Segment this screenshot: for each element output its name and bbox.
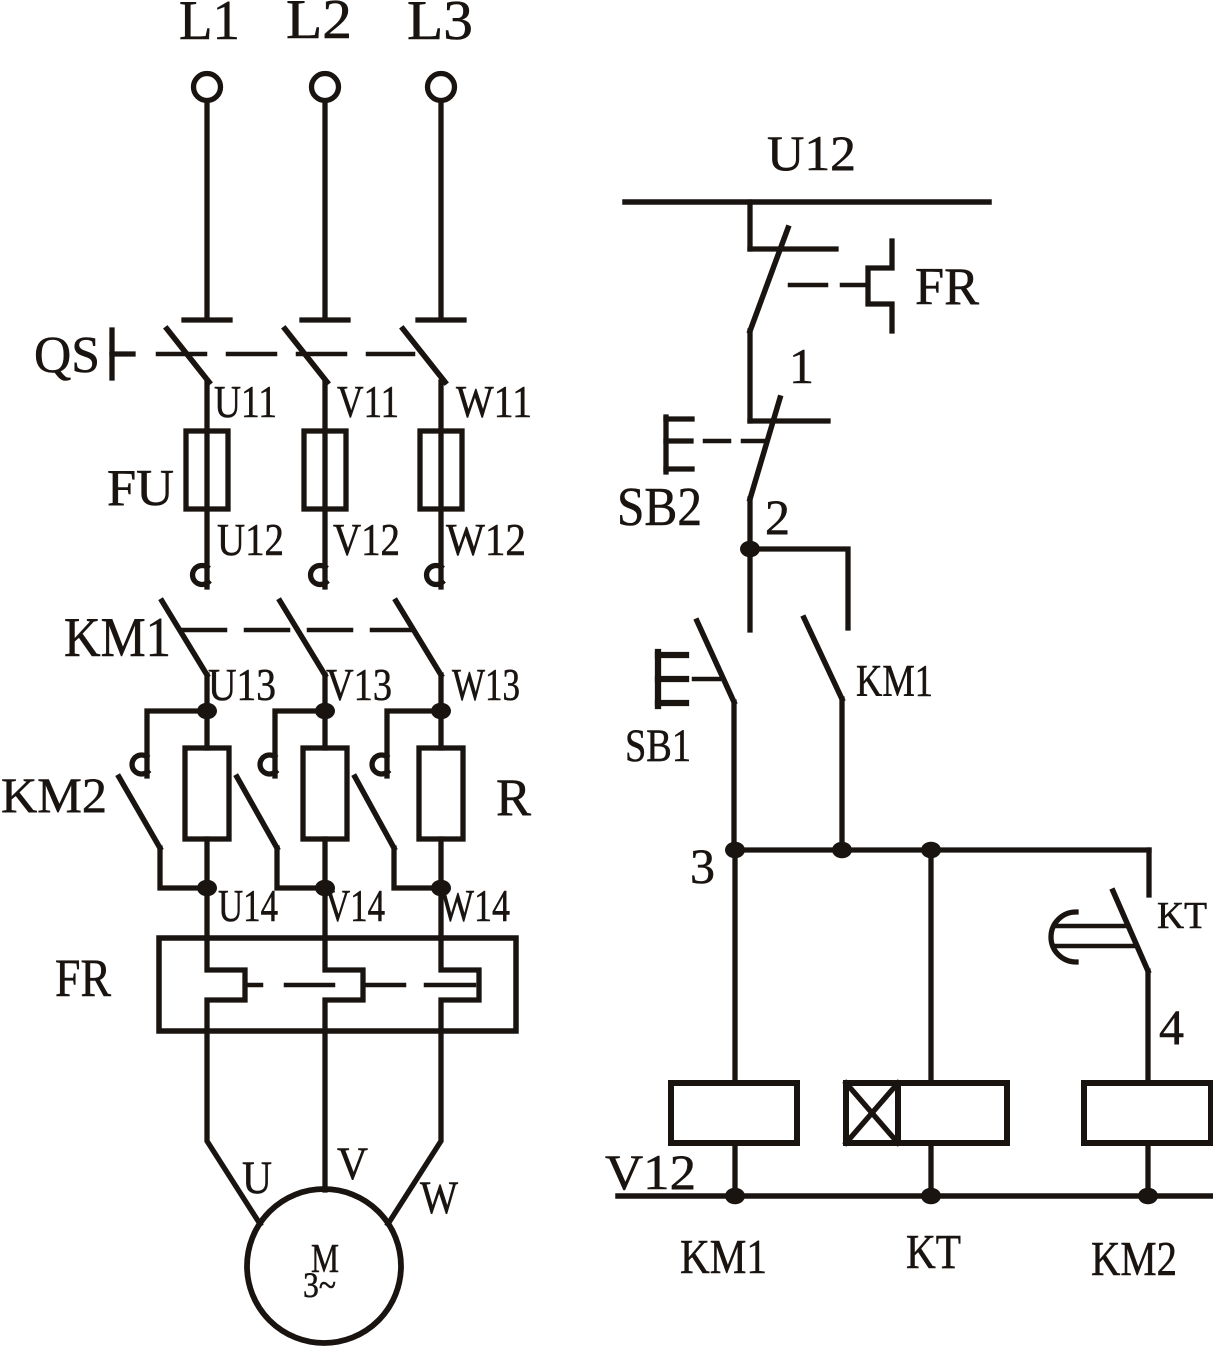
svg-text:U13: U13 bbox=[208, 660, 276, 710]
svg-text:U: U bbox=[242, 1152, 272, 1204]
svg-text:KM1: KM1 bbox=[680, 1229, 767, 1284]
svg-text:W12: W12 bbox=[446, 515, 526, 565]
svg-text:V12: V12 bbox=[605, 1144, 696, 1200]
svg-text:W13: W13 bbox=[452, 660, 520, 710]
svg-text:V: V bbox=[337, 1138, 368, 1190]
svg-text:R: R bbox=[496, 769, 532, 827]
svg-text:KM2: KM2 bbox=[1091, 1231, 1177, 1286]
svg-text:V12: V12 bbox=[333, 515, 400, 565]
svg-text:L1: L1 bbox=[179, 0, 240, 52]
svg-text:1: 1 bbox=[789, 338, 814, 394]
svg-text:W11: W11 bbox=[456, 377, 532, 427]
svg-text:3~: 3~ bbox=[303, 1265, 336, 1305]
svg-text:4: 4 bbox=[1159, 999, 1184, 1055]
svg-text:KM2: KM2 bbox=[1, 767, 107, 823]
svg-text:KT: KT bbox=[906, 1224, 961, 1279]
svg-text:SB1: SB1 bbox=[625, 720, 691, 772]
svg-text:KM1: KM1 bbox=[856, 656, 933, 706]
svg-text:V14: V14 bbox=[325, 881, 385, 931]
svg-text:QS: QS bbox=[34, 327, 100, 384]
svg-text:KT: KT bbox=[1157, 895, 1207, 937]
svg-text:W: W bbox=[420, 1172, 459, 1224]
svg-text:3: 3 bbox=[690, 838, 715, 894]
svg-text:W14: W14 bbox=[440, 881, 510, 931]
svg-text:U12: U12 bbox=[767, 125, 856, 181]
svg-text:L3: L3 bbox=[407, 0, 473, 52]
svg-text:FU: FU bbox=[107, 460, 174, 517]
svg-text:FR: FR bbox=[55, 948, 111, 1008]
svg-text:L2: L2 bbox=[286, 0, 352, 51]
svg-text:2: 2 bbox=[765, 489, 790, 545]
svg-text:FR: FR bbox=[915, 258, 980, 316]
svg-text:V13: V13 bbox=[326, 660, 392, 710]
svg-text:V11: V11 bbox=[337, 377, 399, 427]
svg-text:U14: U14 bbox=[218, 881, 278, 931]
svg-text:U12: U12 bbox=[217, 515, 284, 565]
svg-text:KM1: KM1 bbox=[64, 607, 171, 669]
svg-text:U11: U11 bbox=[214, 377, 277, 427]
svg-text:SB2: SB2 bbox=[617, 476, 702, 537]
